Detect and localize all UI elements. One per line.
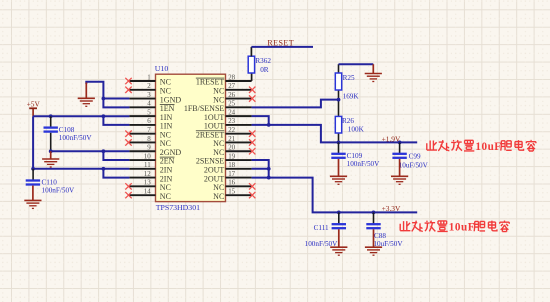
svg-text:4: 4 <box>147 101 151 108</box>
svg-text:2RESET: 2RESET <box>196 130 225 139</box>
svg-text:1RESET: 1RESET <box>196 78 225 87</box>
svg-text:NC: NC <box>160 86 171 95</box>
svg-text:28: 28 <box>228 74 235 81</box>
svg-text:1GND: 1GND <box>160 95 182 104</box>
svg-text:2IN: 2IN <box>160 174 173 183</box>
svg-text:1FB/SENSE: 1FB/SENSE <box>184 104 225 113</box>
svg-text:NC: NC <box>160 130 171 139</box>
svg-text:11: 11 <box>144 162 151 169</box>
svg-text:25: 25 <box>228 101 235 108</box>
svg-text:2GND: 2GND <box>160 148 182 157</box>
svg-text:C109: C109 <box>347 152 363 160</box>
svg-text:C110: C110 <box>42 178 58 186</box>
svg-text:1IN: 1IN <box>160 122 173 131</box>
svg-text:17: 17 <box>228 171 235 178</box>
svg-text:20: 20 <box>228 145 235 152</box>
svg-text:22: 22 <box>228 127 235 134</box>
svg-text:13: 13 <box>144 180 151 187</box>
svg-text:2EN: 2EN <box>160 157 175 166</box>
svg-text:1OUT: 1OUT <box>204 122 225 131</box>
svg-text:5: 5 <box>147 109 151 116</box>
svg-text:26: 26 <box>228 92 235 99</box>
svg-text:2IN: 2IN <box>160 166 173 175</box>
svg-text:C99: C99 <box>409 152 421 160</box>
svg-text:100nF/50V: 100nF/50V <box>347 160 381 168</box>
svg-text:23: 23 <box>228 118 235 125</box>
svg-text:NC: NC <box>160 183 171 192</box>
svg-text:C111: C111 <box>314 224 329 232</box>
svg-text:14: 14 <box>144 188 151 195</box>
svg-text:7: 7 <box>147 127 151 134</box>
svg-text:8: 8 <box>147 136 151 143</box>
svg-text:169K: 169K <box>343 93 360 101</box>
svg-text:9: 9 <box>147 145 151 152</box>
svg-text:NC: NC <box>213 95 224 104</box>
svg-text:NC: NC <box>213 86 224 95</box>
svg-text:2OUT: 2OUT <box>204 166 225 175</box>
svg-text:+3.3V: +3.3V <box>382 204 401 213</box>
svg-text:+5V: +5V <box>27 100 41 109</box>
svg-text:100nF/50V: 100nF/50V <box>59 134 93 142</box>
svg-text:U10: U10 <box>155 64 169 73</box>
svg-text:100nF/50V: 100nF/50V <box>42 186 76 194</box>
svg-text:15: 15 <box>228 188 235 195</box>
svg-text:1OUT: 1OUT <box>204 113 225 122</box>
svg-text:3: 3 <box>147 92 151 99</box>
svg-text:R362: R362 <box>255 57 271 65</box>
svg-text:100K: 100K <box>348 125 365 133</box>
svg-text:2: 2 <box>147 83 151 90</box>
svg-text:NC: NC <box>160 78 171 87</box>
svg-text:18: 18 <box>228 162 235 169</box>
svg-text:19: 19 <box>228 153 235 160</box>
svg-text:C108: C108 <box>59 126 75 134</box>
svg-text:C88: C88 <box>374 232 386 240</box>
svg-text:R26: R26 <box>342 117 354 125</box>
svg-text:1EN: 1EN <box>160 104 175 113</box>
svg-text:+1.9V: +1.9V <box>382 134 401 143</box>
svg-text:24: 24 <box>228 109 235 116</box>
svg-text:10uF: 10uF <box>475 141 501 153</box>
svg-text:NC: NC <box>160 192 171 201</box>
svg-text:12: 12 <box>144 171 151 178</box>
svg-text:16: 16 <box>228 180 235 187</box>
svg-text:10: 10 <box>144 153 151 160</box>
svg-text:10uF: 10uF <box>449 222 475 234</box>
svg-text:1IN: 1IN <box>160 113 173 122</box>
svg-text:10uF/50V: 10uF/50V <box>399 161 429 169</box>
svg-text:TPS73HD301: TPS73HD301 <box>156 203 200 212</box>
svg-text:6: 6 <box>147 118 151 125</box>
svg-text:R25: R25 <box>343 74 355 82</box>
svg-text:RESET: RESET <box>267 38 294 47</box>
svg-text:NC: NC <box>213 183 224 192</box>
svg-text:0R: 0R <box>260 66 269 74</box>
svg-text:2SENSE: 2SENSE <box>196 157 225 166</box>
svg-text:NC: NC <box>213 139 224 148</box>
svg-text:27: 27 <box>228 83 235 90</box>
svg-text:21: 21 <box>228 136 235 143</box>
svg-text:1: 1 <box>147 74 151 81</box>
svg-text:NC: NC <box>213 192 224 201</box>
svg-text:NC: NC <box>213 148 224 157</box>
svg-text:2OUT: 2OUT <box>204 174 225 183</box>
svg-text:NC: NC <box>160 139 171 148</box>
